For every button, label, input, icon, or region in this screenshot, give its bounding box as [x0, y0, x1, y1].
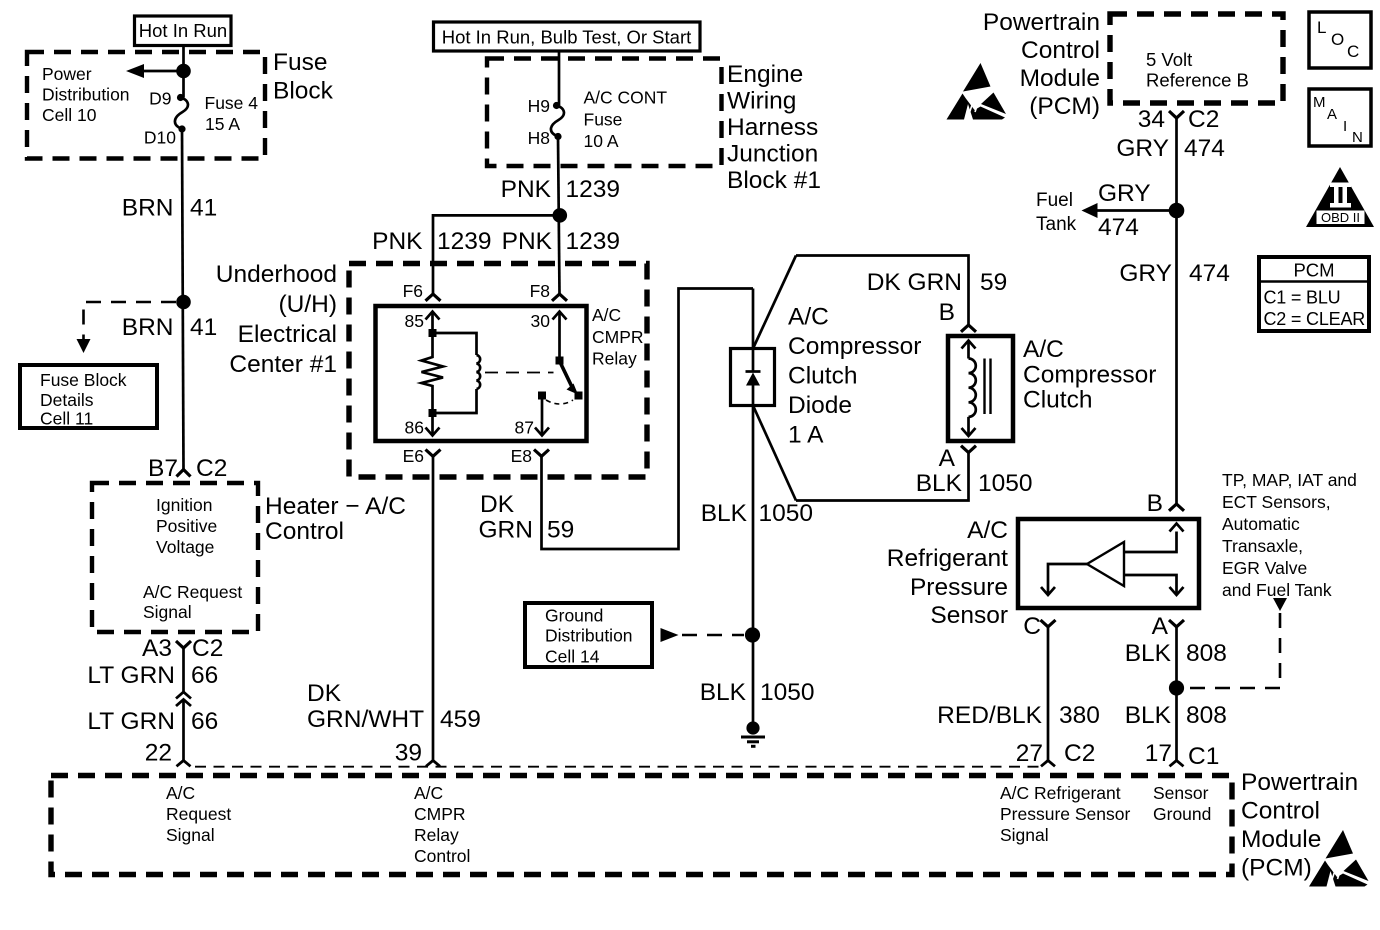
svg-text:TP, MAP, IAT and: TP, MAP, IAT and: [1222, 470, 1357, 490]
label BLK 1050 (upper): [701, 500, 813, 527]
connector pin F8: [530, 281, 567, 301]
svg-text:C1 = BLU: C1 = BLU: [1264, 288, 1341, 308]
svg-text:C2: C2: [196, 455, 227, 482]
box Ground Distribution Cell 14: [525, 603, 652, 667]
note A/C Request Signal (PCM pin 22): [166, 783, 231, 845]
inline connector (double chevron): [176, 692, 191, 706]
svg-text:Cell 10: Cell 10: [42, 105, 97, 125]
label Powertrain Control Module (PCM) top: [983, 9, 1100, 120]
A/C Compressor Clutch box: [948, 336, 1013, 441]
connector chevron pin 22: [177, 761, 191, 767]
svg-text:27: 27: [1016, 740, 1043, 767]
note TP MAP IAT sensors: [1222, 470, 1357, 600]
svg-text:Signal: Signal: [1000, 825, 1049, 845]
label PNK 1239 upper: [501, 176, 620, 203]
label GRY 474 upper: [1116, 135, 1225, 162]
svg-text:10 A: 10 A: [584, 131, 619, 151]
switch contact square (87): [538, 392, 546, 400]
connector chevron pin 39: [426, 761, 440, 767]
label A/C Compressor Clutch Diode 1 A: [788, 304, 921, 449]
svg-text:E6: E6: [403, 446, 424, 466]
svg-text:A/C: A/C: [592, 305, 621, 325]
wire angled diode to DK GRN rail: [753, 256, 796, 349]
svg-text:Cell 14: Cell 14: [545, 647, 600, 667]
svg-text:Diode: Diode: [788, 392, 852, 419]
svg-text:D9: D9: [149, 89, 171, 109]
svg-text:Pressure: Pressure: [910, 574, 1008, 601]
svg-text:(PCM): (PCM): [1029, 93, 1100, 120]
svg-text:Positive: Positive: [156, 516, 217, 536]
fuse F4 "Fuse 4 15 A" (D9-D10): [175, 94, 188, 133]
svg-text:Ground: Ground: [545, 606, 603, 626]
label BRN 41 lower: [122, 314, 218, 341]
box Hot In Run, Bulb Test, Or Start: [434, 22, 701, 51]
svg-text:PNK: PNK: [501, 176, 552, 203]
connector pin B7 C2: [148, 455, 227, 482]
svg-text:GRY: GRY: [1119, 260, 1172, 287]
svg-text:BRN: BRN: [122, 314, 174, 341]
svg-text:Compressor: Compressor: [1023, 362, 1156, 389]
svg-text:BLK: BLK: [1125, 702, 1172, 729]
svg-text:Sensor: Sensor: [1153, 783, 1209, 803]
svg-text:66: 66: [191, 708, 218, 735]
svg-text:LT GRN: LT GRN: [87, 708, 175, 735]
label DK GRN 59 (clutch): [867, 269, 1008, 296]
svg-text:A: A: [1327, 106, 1337, 123]
sensor A/C Refrigerant Pressure Sensor box: [1018, 519, 1199, 608]
svg-text:DK GRN: DK GRN: [867, 269, 962, 296]
svg-text:86: 86: [405, 418, 424, 438]
label BRN 41 upper: [122, 195, 218, 222]
svg-text:459: 459: [440, 706, 481, 733]
svg-text:L: L: [1317, 18, 1326, 37]
wire BLK 1050 to ground: [752, 406, 755, 723]
node 85 square: [429, 329, 437, 337]
sensor internal symbol: [1041, 524, 1184, 596]
resistor (relay): [422, 337, 444, 409]
box LOC: [1309, 12, 1371, 68]
junction BLK splice: [745, 627, 760, 642]
label PNK 1239 left branch: [372, 228, 491, 255]
wire DK GRN/WHT 459 (E6 to PCM 39): [432, 456, 435, 760]
junction at fuse block tap: [176, 64, 191, 79]
diode D1 A/C Compressor Clutch Diode box: [731, 349, 775, 406]
svg-text:41: 41: [190, 314, 217, 341]
svg-text:808: 808: [1186, 702, 1227, 729]
pin B (clutch): [939, 299, 976, 332]
svg-text:Refrigerant: Refrigerant: [887, 545, 1008, 572]
note Sensor Ground (PCM pin 17): [1153, 783, 1211, 824]
svg-text:Center #1: Center #1: [229, 351, 337, 378]
svg-text:Module: Module: [1020, 65, 1100, 92]
svg-text:59: 59: [980, 269, 1007, 296]
label DK GRN 59: [479, 491, 575, 544]
wire from Hot In Run Bulb Test to H9: [558, 51, 561, 106]
svg-text:CMPR: CMPR: [592, 327, 644, 347]
svg-text:A: A: [939, 445, 956, 472]
relay mechanical dashed link: [485, 372, 554, 374]
svg-text:DK: DK: [307, 680, 342, 707]
svg-text:Powertrain: Powertrain: [1241, 769, 1358, 796]
relay coil branch wiring top: [433, 333, 477, 355]
svg-text:808: 808: [1186, 640, 1227, 667]
dashed leader Ground Distribution to splice: [661, 628, 745, 642]
svg-text:1239: 1239: [566, 176, 621, 203]
svg-text:A/C: A/C: [414, 783, 443, 803]
svg-text:Distribution: Distribution: [545, 626, 633, 646]
svg-text:A/C: A/C: [1023, 336, 1064, 363]
label A/C CMPR Relay: [592, 305, 644, 369]
svg-text:ECT Sensors,: ECT Sensors,: [1222, 492, 1331, 512]
svg-text:Ignition: Ignition: [156, 495, 212, 515]
svg-text:N: N: [1352, 129, 1363, 146]
label A/C Compressor Clutch: [1023, 336, 1156, 414]
svg-text:GRY: GRY: [1098, 180, 1151, 207]
svg-text:B: B: [1147, 490, 1163, 517]
box MAIN: [1309, 89, 1371, 146]
svg-text:Module: Module: [1241, 826, 1321, 853]
svg-text:A: A: [1152, 613, 1169, 640]
svg-text:C2: C2: [1188, 106, 1219, 133]
note A/C Request Signal: [143, 582, 242, 622]
svg-text:22: 22: [145, 740, 172, 767]
svg-text:(PCM): (PCM): [1241, 855, 1312, 882]
dashed box Fuse Block: [27, 52, 265, 159]
svg-text:Details: Details: [40, 390, 94, 410]
junction GRY splice: [1169, 203, 1185, 219]
svg-text:34: 34: [1138, 106, 1165, 133]
svg-text:474: 474: [1189, 260, 1230, 287]
label Fuse Block: [273, 49, 334, 105]
ESD symbol bottom: [1309, 830, 1369, 887]
wire BRN tap arrow to Power Distribution: [126, 64, 184, 78]
svg-text:A/C CONT: A/C CONT: [584, 88, 668, 108]
svg-text:59: 59: [547, 517, 574, 544]
wire RED/BLK 380 (C to PCM 27): [1047, 627, 1050, 761]
label Underhood (U/H) Electrical Center #1: [216, 261, 337, 378]
switch pivot square (30): [556, 357, 564, 365]
box Fuse Block Details Cell 11: [20, 365, 157, 429]
svg-text:A/C: A/C: [967, 517, 1008, 544]
svg-text:I: I: [1343, 118, 1347, 135]
junction BLK 808 splice: [1169, 680, 1184, 695]
svg-text:474: 474: [1184, 135, 1225, 162]
connector pin F6: [403, 281, 441, 301]
wire PNK branch to F6: [433, 215, 560, 294]
svg-text:Powertrain: Powertrain: [983, 9, 1100, 36]
box PCM connector legend: [1259, 257, 1369, 331]
svg-text:PNK: PNK: [372, 228, 423, 255]
svg-text:A/C: A/C: [788, 304, 829, 331]
svg-text:Clutch: Clutch: [788, 363, 857, 390]
svg-text:A/C: A/C: [166, 783, 195, 803]
svg-text:1050: 1050: [978, 470, 1033, 497]
svg-text:15 A: 15 A: [205, 114, 240, 134]
ESD symbol top: [947, 63, 1007, 120]
dashed box 5 Volt Reference B: [1110, 14, 1283, 103]
node 86 square: [429, 409, 437, 417]
svg-text:DK: DK: [480, 491, 515, 518]
wire LT GRN 66 (A3 to inline connector): [182, 648, 185, 692]
label Engine Wiring Harness Junction Block #1: [727, 61, 821, 194]
diode symbol: [746, 349, 761, 406]
wire GRY 474 branch to fuel tank: [1082, 203, 1177, 218]
svg-text:A3: A3: [142, 635, 172, 662]
wire PNK 1239 (H8 down to junction): [558, 137, 560, 295]
pin 86 arrow: [405, 417, 440, 438]
svg-text:(U/H): (U/H): [278, 291, 337, 318]
wire LT GRN 66 (to PCM pin 22): [182, 700, 185, 761]
svg-text:GRN: GRN: [479, 517, 533, 544]
switch arm with arrowhead: [560, 361, 579, 395]
note A/C Refrigerant Pressure Sensor Signal (PCM pin 27): [1000, 783, 1131, 845]
svg-text:Power: Power: [42, 64, 92, 84]
relay coil: [437, 355, 481, 413]
svg-text:17: 17: [1145, 740, 1172, 767]
svg-text:Hot In Run, Bulb Test, Or Star: Hot In Run, Bulb Test, Or Start: [442, 27, 692, 48]
connector pin 34 C2: [1138, 106, 1220, 133]
svg-text:LT GRN: LT GRN: [87, 662, 175, 689]
svg-text:Control: Control: [414, 846, 470, 866]
svg-text:Relay: Relay: [592, 349, 637, 369]
svg-text:Sensor: Sensor: [930, 602, 1008, 629]
svg-text:474: 474: [1098, 214, 1139, 241]
dashed box Powertrain Control Module bottom: [51, 776, 1232, 875]
dashed leader to Fuse Block Details: [77, 302, 177, 353]
svg-text:Heater − A/C: Heater − A/C: [265, 493, 406, 520]
box Hot In Run: [135, 16, 232, 46]
svg-text:E8: E8: [511, 446, 532, 466]
label BLK 808 upper: [1125, 640, 1227, 667]
svg-text:Engine: Engine: [727, 61, 803, 88]
dashed box Underhood Electrical Center #1: [349, 264, 647, 478]
svg-text:A/C Refrigerant: A/C Refrigerant: [1000, 783, 1121, 803]
svg-text:1239: 1239: [566, 228, 621, 255]
svg-text:F6: F6: [403, 281, 423, 301]
wire ignition feed (Hot In Run to D9): [182, 46, 185, 98]
svg-text:B7: B7: [148, 455, 178, 482]
svg-text:Ground: Ground: [1153, 804, 1211, 824]
wire angled diode to BLK rail: [753, 406, 796, 501]
dashed box Engine Wiring Harness Junction Block #1: [487, 59, 722, 167]
svg-text:C2: C2: [1064, 740, 1095, 767]
svg-text:H9: H9: [528, 96, 550, 116]
svg-text:1 A: 1 A: [788, 421, 824, 448]
svg-text:30: 30: [531, 311, 551, 331]
svg-text:Compressor: Compressor: [788, 333, 921, 360]
svg-text:M: M: [1313, 94, 1326, 111]
relay K1 A/C CMPR Relay box: [376, 306, 587, 441]
svg-text:EGR Valve: EGR Valve: [1222, 558, 1307, 578]
label LT GRN 66 upper: [87, 662, 218, 689]
pin B (sensor): [1147, 490, 1184, 517]
pin A (clutch): [939, 445, 976, 472]
svg-text:Electrical: Electrical: [238, 321, 337, 348]
svg-text:BLK: BLK: [700, 679, 747, 706]
svg-text:PNK: PNK: [502, 228, 553, 255]
svg-text:Fuse: Fuse: [584, 110, 623, 130]
svg-text:1050: 1050: [760, 679, 815, 706]
svg-text:BLK: BLK: [916, 470, 963, 497]
connector pin E6: [403, 446, 441, 466]
svg-text:RED/BLK: RED/BLK: [937, 702, 1043, 729]
svg-text:Transaxle,: Transaxle,: [1222, 536, 1303, 556]
svg-text:H8: H8: [528, 128, 550, 148]
svg-text:Harness: Harness: [727, 114, 818, 141]
label DK GRN/WHT 459: [307, 680, 481, 733]
svg-text:Control: Control: [1021, 37, 1100, 64]
svg-text:Automatic: Automatic: [1222, 514, 1300, 534]
wire GRY 474 (34 to sensor B): [1175, 118, 1178, 504]
pin C (sensor): [1023, 613, 1055, 640]
svg-text:BLK: BLK: [1125, 640, 1172, 667]
wire BLK 808 (A to PCM 17): [1175, 627, 1178, 761]
pin 30 arrow: [531, 311, 567, 360]
svg-text:BRN: BRN: [122, 195, 174, 222]
svg-text:Wiring: Wiring: [727, 88, 796, 115]
wire DK GRN rail to clutch B: [796, 256, 969, 326]
svg-text:Request: Request: [166, 804, 231, 824]
svg-text:C2 = CLEAR: C2 = CLEAR: [1264, 309, 1366, 329]
label BLK 808 lower: [1125, 702, 1227, 729]
ground G1: [741, 721, 765, 746]
note Fuel Tank: [1036, 190, 1077, 235]
value Fuse 4 15 A: [205, 93, 259, 134]
label BLK 1050 (clutch): [916, 470, 1033, 497]
svg-text:380: 380: [1059, 702, 1100, 729]
pin A (sensor): [1152, 613, 1184, 640]
wire BRN 41 (D10 to B7): [182, 129, 184, 470]
label Heater - A/C Control: [265, 493, 406, 545]
svg-text:Fuel: Fuel: [1036, 190, 1073, 211]
note Power Distribution Cell 10: [42, 64, 130, 125]
pin 87 arrow: [515, 400, 549, 438]
svg-text:B: B: [939, 299, 955, 326]
svg-text:Control: Control: [265, 518, 344, 545]
dashed contact arc: [546, 400, 573, 404]
value A/C CONT Fuse 10 A: [584, 88, 668, 152]
OBD II triangle: [1306, 167, 1374, 227]
label BLK 1050 (lower): [700, 679, 815, 706]
svg-text:C2: C2: [192, 635, 223, 662]
svg-text:OBD II: OBD II: [1321, 210, 1360, 225]
svg-text:GRN/WHT: GRN/WHT: [307, 706, 424, 733]
svg-text:Pressure Sensor: Pressure Sensor: [1000, 804, 1131, 824]
dashed leader TP/MAP note to BLK splice: [1186, 598, 1287, 688]
svg-text:Block: Block: [273, 78, 334, 105]
note A/C CMPR Relay Control (PCM pin 39): [414, 783, 470, 866]
connector C2 thin dashed line: [195, 766, 1042, 768]
junction BRN splice: [176, 295, 191, 310]
svg-text:C: C: [1023, 613, 1041, 640]
clutch coil with arrows: [962, 341, 976, 437]
svg-text:Underhood: Underhood: [216, 261, 337, 288]
svg-text:Distribution: Distribution: [42, 85, 130, 105]
svg-text:GRY: GRY: [1116, 135, 1169, 162]
svg-text:C1: C1: [1188, 743, 1219, 770]
svg-text:66: 66: [191, 662, 218, 689]
pin 27 C2: [1016, 740, 1096, 767]
junction PNK splice: [553, 208, 568, 223]
svg-text:Fuse 4: Fuse 4: [205, 93, 259, 113]
svg-text:A/C Request: A/C Request: [143, 582, 242, 602]
svg-text:5 Volt: 5 Volt: [1146, 49, 1192, 70]
label A/C Refrigerant Pressure Sensor: [887, 517, 1008, 629]
wire BLK rail (clutch A to diode): [796, 453, 969, 501]
svg-text:41: 41: [190, 195, 217, 222]
pin 85 arrow: [405, 311, 440, 333]
svg-text:PCM: PCM: [1293, 260, 1334, 281]
clutch plates: [985, 359, 991, 415]
svg-text:Relay: Relay: [414, 825, 459, 845]
label GRY 474 lower: [1119, 260, 1230, 287]
svg-text:F8: F8: [530, 281, 550, 301]
svg-text:Junction: Junction: [727, 141, 818, 168]
svg-text:Signal: Signal: [166, 825, 215, 845]
svg-text:39: 39: [395, 740, 422, 767]
svg-text:Voltage: Voltage: [156, 537, 214, 557]
svg-text:C: C: [1347, 42, 1359, 61]
svg-text:85: 85: [405, 311, 424, 331]
label GRY 474 (fuel tank branch): [1098, 180, 1151, 241]
svg-text:D10: D10: [144, 128, 176, 148]
svg-text:Cell 11: Cell 11: [40, 409, 93, 429]
dashed box Heater A/C Control: [92, 483, 258, 632]
connector pin A3 C2: [142, 635, 223, 662]
fuse A/C CONT 10A (H9-H8): [551, 102, 564, 140]
svg-text:Control: Control: [1241, 798, 1320, 825]
pin 17 C1: [1145, 740, 1220, 770]
svg-text:and Fuel Tank: and Fuel Tank: [1222, 580, 1332, 600]
svg-text:Reference B: Reference B: [1146, 70, 1249, 91]
wire diode top lead: [752, 289, 755, 349]
connector pin E8: [511, 446, 549, 466]
svg-text:Hot In Run: Hot In Run: [139, 20, 227, 41]
svg-text:Clutch: Clutch: [1023, 387, 1092, 414]
svg-text:BLK: BLK: [701, 500, 748, 527]
label LT GRN 66 lower: [87, 708, 218, 735]
wire DK GRN 59 (E8 to diode/clutch): [542, 289, 754, 550]
svg-text:1239: 1239: [437, 228, 492, 255]
svg-text:Signal: Signal: [143, 602, 192, 622]
label RED/BLK 380: [937, 702, 1100, 729]
svg-text:Block #1: Block #1: [727, 167, 821, 194]
label Powertrain Control Module (PCM) bottom: [1241, 769, 1358, 882]
svg-text:CMPR: CMPR: [414, 804, 466, 824]
svg-text:1050: 1050: [759, 500, 814, 527]
note Ignition Positive Voltage: [156, 495, 217, 557]
svg-text:Fuse: Fuse: [273, 49, 327, 76]
svg-text:Fuse Block: Fuse Block: [40, 370, 127, 390]
switch contact square (arm end): [575, 392, 583, 400]
svg-text:Tank: Tank: [1036, 214, 1077, 235]
svg-text:87: 87: [515, 418, 534, 438]
svg-text:O: O: [1331, 30, 1344, 49]
label PNK 1239 right branch: [502, 228, 620, 255]
